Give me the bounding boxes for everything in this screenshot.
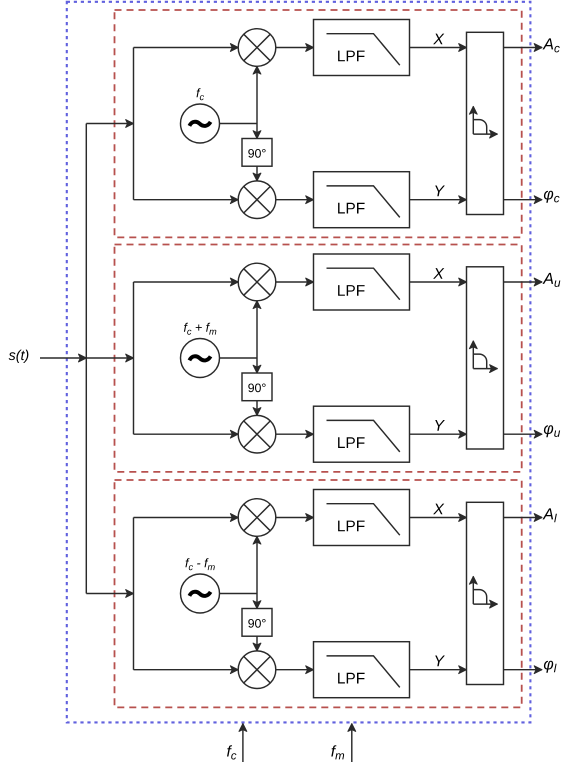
wire: channel 1 into bottom mixer	[134, 199, 239, 201]
phase shifter box 90deg channel 1	[242, 139, 272, 167]
oscillator OSC3	[181, 574, 220, 613]
wire: top LPF to converter, label X, channel 3	[410, 517, 467, 519]
wire: channel 3 into top mixer	[134, 517, 239, 519]
reference input f_m arrow	[351, 724, 353, 762]
wire: bus to channel 1	[86, 123, 133, 125]
wire: mixer M1a to top LPF	[276, 47, 314, 49]
oscillator OSC3 frequency label	[185, 558, 214, 570]
mixer M1b (bottom multiplier)	[238, 181, 276, 219]
input label s(t)	[9, 350, 29, 363]
wire: junction up into mixer M1a	[256, 66, 258, 123]
low-pass filter LPF (top) channel 3	[314, 490, 410, 546]
wire: bottom LPF to converter, label Y, channel 1	[410, 199, 467, 201]
wire: channel 2 left vertical split	[133, 282, 135, 434]
label f_m	[331, 745, 344, 759]
wire: amplitude output channel 1	[504, 47, 543, 49]
wire: 90 deg shifter into mixer M1b	[256, 166, 258, 181]
outer system boundary (blue dashed box)	[67, 2, 531, 723]
wire: oscillator OSC1 output to junction	[220, 123, 258, 125]
output label A_l	[543, 508, 557, 522]
wire: mixer M3b to bottom LPF	[276, 669, 314, 671]
rectangular-to-polar converter U2	[467, 267, 504, 449]
wire: 90 deg shifter into mixer M2b	[256, 401, 258, 416]
channel 3 enclosure (red dashed box)	[115, 480, 522, 707]
phase shifter box 90deg channel 3	[242, 609, 272, 637]
channel 2 enclosure (red dashed box)	[115, 245, 522, 472]
oscillator OSC1 frequency label	[197, 88, 205, 100]
wire: channel 2 into bottom mixer	[134, 433, 239, 435]
wire: bus to channel 3	[86, 593, 133, 595]
wire: top LPF to converter, label X, channel 2	[410, 281, 467, 283]
oscillator OSC2	[181, 339, 220, 378]
reference input f_c arrow	[242, 724, 244, 762]
mixer M1a (top multiplier)	[238, 29, 276, 67]
wire: s(t) into distribution bus	[40, 357, 86, 359]
wire: oscillator OSC3 output to junction	[220, 593, 258, 595]
wire: junction up into mixer M3a	[256, 536, 258, 593]
oscillator OSC2 frequency label	[184, 323, 216, 335]
oscillator OSC1	[181, 104, 220, 143]
wire: 90 deg shifter into mixer M3b	[256, 636, 258, 651]
output label phi_u	[544, 425, 560, 437]
low-pass filter LPF (top) channel 1	[314, 20, 410, 76]
mixer M3b (bottom multiplier)	[238, 651, 276, 689]
node: bus junction / vertical distribution bus	[85, 124, 87, 594]
wire: oscillator OSC2 output to junction	[220, 357, 258, 359]
wire: mixer M2b to bottom LPF	[276, 433, 314, 435]
channel 1 enclosure (red dashed box)	[115, 10, 522, 237]
low-pass filter LPF (top) channel 2	[314, 254, 410, 310]
wire: phase output channel 2	[504, 433, 543, 435]
low-pass filter LPF (bottom) channel 3	[314, 642, 410, 698]
wire: junction down into 90 deg shifter	[256, 358, 258, 373]
low-pass filter LPF (bottom) channel 2	[314, 406, 410, 462]
wire: channel 2 into top mixer	[134, 281, 239, 283]
mixer M2a (top multiplier)	[238, 263, 276, 301]
wire: mixer M1b to bottom LPF	[276, 199, 314, 201]
phase shifter box 90deg channel 2	[242, 373, 272, 401]
mixer M2b (bottom multiplier)	[238, 415, 276, 453]
wire: channel 3 left vertical split	[133, 518, 135, 670]
wire: amplitude output channel 2	[504, 281, 543, 283]
wire: phase output channel 1	[504, 199, 543, 201]
mixer M3a (top multiplier)	[238, 499, 276, 537]
wire: channel 3 into bottom mixer	[134, 669, 239, 671]
wire: junction down into 90 deg shifter	[256, 124, 258, 139]
wire: top LPF to converter, label X, channel 1	[410, 47, 467, 49]
wire: phase output channel 3	[504, 669, 543, 671]
wire: bottom LPF to converter, label Y, channel 3	[410, 669, 467, 671]
output label A_u	[543, 273, 561, 287]
rectangular-to-polar converter U1	[467, 32, 504, 214]
wire: junction down into 90 deg shifter	[256, 594, 258, 609]
wire: channel 1 into top mixer	[134, 47, 239, 49]
wire: bus to channel 2	[86, 357, 133, 359]
wire: channel 1 left vertical split	[133, 48, 135, 200]
output label phi_l	[544, 661, 557, 673]
wire: mixer M2a to top LPF	[276, 281, 314, 283]
rectangular-to-polar converter U3	[467, 502, 504, 684]
wire: amplitude output channel 3	[504, 517, 543, 519]
output label A_c	[543, 38, 560, 52]
low-pass filter LPF (bottom) channel 1	[314, 172, 410, 228]
output label phi_c	[544, 191, 560, 203]
wire: junction up into mixer M2a	[256, 301, 258, 358]
wire: mixer M3a to top LPF	[276, 517, 314, 519]
wire: bottom LPF to converter, label Y, channel 2	[410, 433, 467, 435]
label f_c	[227, 745, 236, 759]
